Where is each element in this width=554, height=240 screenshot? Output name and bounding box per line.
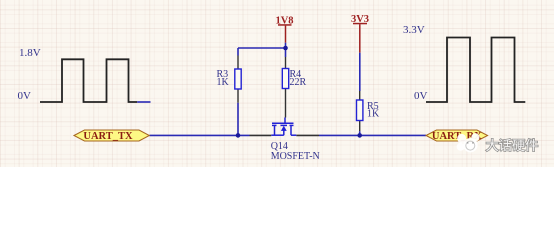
svg-text:MOSFET-N: MOSFET-N bbox=[271, 151, 320, 162]
svg-text:1K: 1K bbox=[367, 109, 380, 120]
svg-text:1K: 1K bbox=[217, 77, 230, 88]
svg-text:22R: 22R bbox=[290, 77, 307, 88]
svg-text:0V: 0V bbox=[414, 90, 428, 102]
svg-text:大话硬件: 大话硬件 bbox=[486, 138, 539, 153]
svg-text:1.8V: 1.8V bbox=[19, 47, 41, 59]
svg-text:0V: 0V bbox=[18, 90, 32, 102]
svg-text:1V8: 1V8 bbox=[275, 15, 293, 26]
svg-text:3.3V: 3.3V bbox=[403, 24, 425, 36]
svg-text:3V3: 3V3 bbox=[351, 14, 369, 25]
svg-text:UART_TX: UART_TX bbox=[83, 131, 133, 142]
